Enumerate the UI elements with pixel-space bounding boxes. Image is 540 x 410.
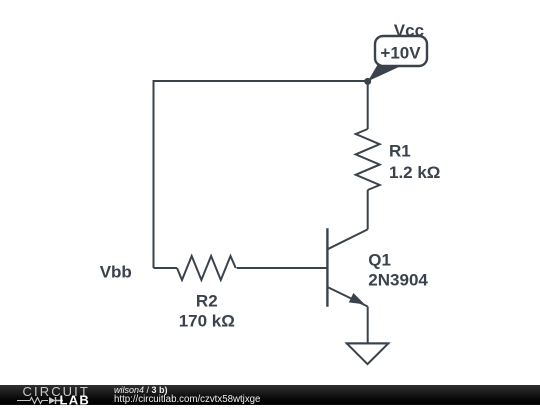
svg-text:Vbb: Vbb [100,263,132,282]
label R1 [389,142,411,161]
wire Vbb to R2 [154,267,178,269]
svg-text:Q1: Q1 [368,251,391,270]
wire top horizontal [154,80,368,82]
voltage source V1 +10V callout [368,36,427,81]
node Vcc junction dot [364,78,371,85]
svg-text:+10V: +10V [380,44,421,63]
svg-text:2N3904: 2N3904 [368,271,428,290]
footer meta text [114,385,260,405]
CircuitLab logo [16,385,96,405]
wire emitter to ground [367,307,369,344]
svg-text:R2: R2 [196,292,218,311]
wire left vertical [153,80,155,268]
ground symbol [346,343,390,364]
label Q1 [368,251,391,270]
label Q1 part 2N3904 [368,271,428,290]
Vcc net label [394,21,424,40]
wire Vcc node to R1 top [367,81,369,129]
svg-text:R1: R1 [389,142,411,161]
resistor R1 [356,129,380,190]
transistor Q1 (NPN) [327,228,367,307]
resistor R2 [177,256,236,280]
svg-text:170 kΩ: 170 kΩ [179,312,235,331]
label R1 value 1.2 kOhm [389,163,440,182]
footer bar [0,385,540,405]
wire R1 bottom to collector [367,190,369,229]
wire R2 to base [237,267,328,269]
label R2 value 170 kOhm [179,312,235,331]
label R2 [196,292,218,311]
svg-text:1.2 kΩ: 1.2 kΩ [389,163,440,182]
svg-text:LAB: LAB [60,393,91,406]
node Vbb label [100,263,132,282]
